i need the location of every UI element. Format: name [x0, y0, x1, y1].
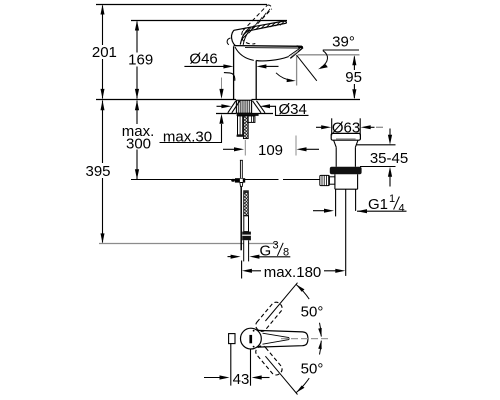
svg-text:4: 4 [399, 203, 405, 215]
svg-text:G: G [260, 242, 272, 259]
svg-text:Ø46: Ø46 [189, 51, 217, 68]
svg-text:201: 201 [92, 44, 117, 61]
svg-text:8: 8 [283, 247, 289, 259]
svg-text:1: 1 [389, 193, 395, 205]
svg-text:43: 43 [233, 371, 250, 388]
svg-text:169: 169 [128, 51, 153, 68]
svg-text:50°: 50° [301, 304, 324, 321]
svg-text:95: 95 [345, 69, 362, 86]
svg-text:39°: 39° [332, 33, 355, 50]
svg-text:max.30: max.30 [163, 128, 212, 145]
svg-text:3: 3 [273, 240, 279, 252]
svg-text:50°: 50° [301, 361, 324, 378]
svg-text:35-45: 35-45 [370, 150, 408, 167]
svg-text:109: 109 [258, 142, 283, 159]
svg-text:395: 395 [85, 163, 110, 180]
svg-text:max.180: max.180 [264, 264, 322, 281]
svg-text:Ø34: Ø34 [279, 101, 307, 118]
svg-text:300: 300 [126, 135, 151, 152]
svg-text:Ø63: Ø63 [332, 120, 360, 137]
svg-text:G1: G1 [368, 196, 388, 213]
